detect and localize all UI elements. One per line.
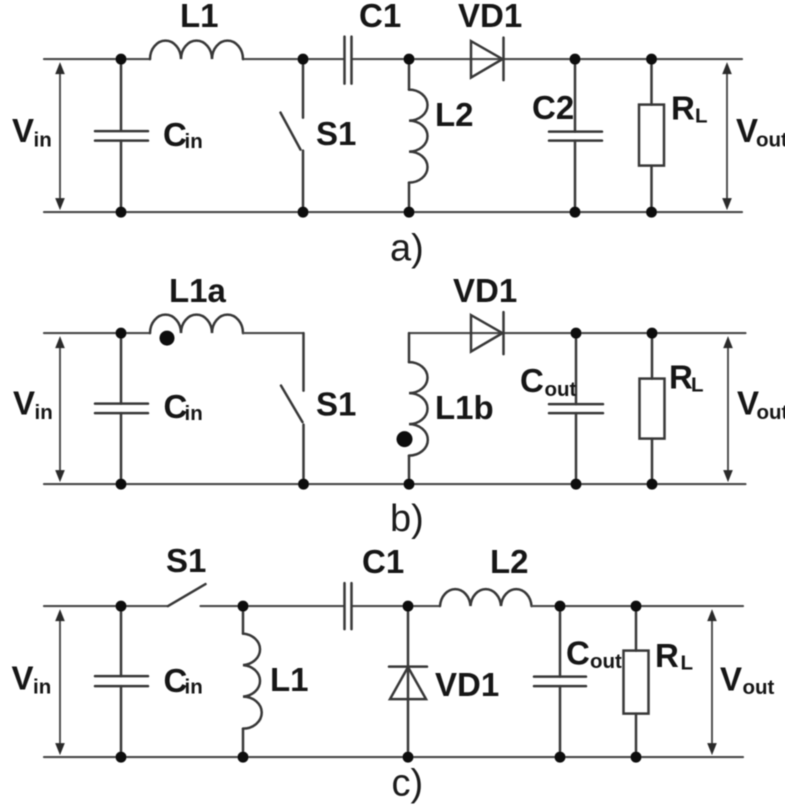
svg-text:out: out xyxy=(545,378,577,401)
svg-text:VD1: VD1 xyxy=(458,0,522,34)
svg-text:C: C xyxy=(163,116,187,153)
svg-text:C: C xyxy=(520,362,544,399)
svg-text:a): a) xyxy=(390,228,424,270)
svg-text:in: in xyxy=(33,676,51,699)
svg-text:C2: C2 xyxy=(532,89,574,126)
svg-text:R: R xyxy=(655,637,679,674)
svg-text:V: V xyxy=(13,385,35,422)
svg-text:V: V xyxy=(736,112,758,149)
svg-text:in: in xyxy=(34,129,52,152)
svg-text:in: in xyxy=(185,676,203,699)
svg-text:L: L xyxy=(681,652,694,675)
svg-text:VD1: VD1 xyxy=(453,272,517,309)
svg-text:L2: L2 xyxy=(490,543,529,580)
svg-text:V: V xyxy=(720,661,742,698)
svg-text:VD1: VD1 xyxy=(435,666,499,703)
svg-text:out: out xyxy=(756,129,785,152)
svg-text:R: R xyxy=(669,359,693,396)
svg-text:L: L xyxy=(691,374,704,397)
svg-text:in: in xyxy=(185,130,203,153)
svg-text:S1: S1 xyxy=(166,542,206,579)
svg-text:out: out xyxy=(590,650,622,673)
svg-text:L2: L2 xyxy=(435,96,474,133)
svg-text:V: V xyxy=(12,660,34,697)
svg-text:S1: S1 xyxy=(316,115,356,152)
svg-text:V: V xyxy=(12,112,34,149)
svg-text:c): c) xyxy=(392,763,424,805)
svg-text:L1a: L1a xyxy=(169,272,227,309)
svg-text:S1: S1 xyxy=(316,386,356,423)
svg-text:b): b) xyxy=(390,498,424,540)
svg-text:out: out xyxy=(757,401,785,424)
svg-text:in: in xyxy=(35,401,53,424)
svg-text:L1: L1 xyxy=(180,0,219,34)
svg-text:C1: C1 xyxy=(362,543,404,580)
svg-text:L: L xyxy=(695,105,708,128)
svg-text:L1b: L1b xyxy=(435,389,494,426)
svg-text:out: out xyxy=(743,676,775,699)
svg-text:C: C xyxy=(566,635,590,672)
svg-text:R: R xyxy=(671,90,695,127)
svg-text:in: in xyxy=(185,402,203,425)
svg-text:L1: L1 xyxy=(270,661,309,698)
svg-text:C1: C1 xyxy=(359,0,401,34)
